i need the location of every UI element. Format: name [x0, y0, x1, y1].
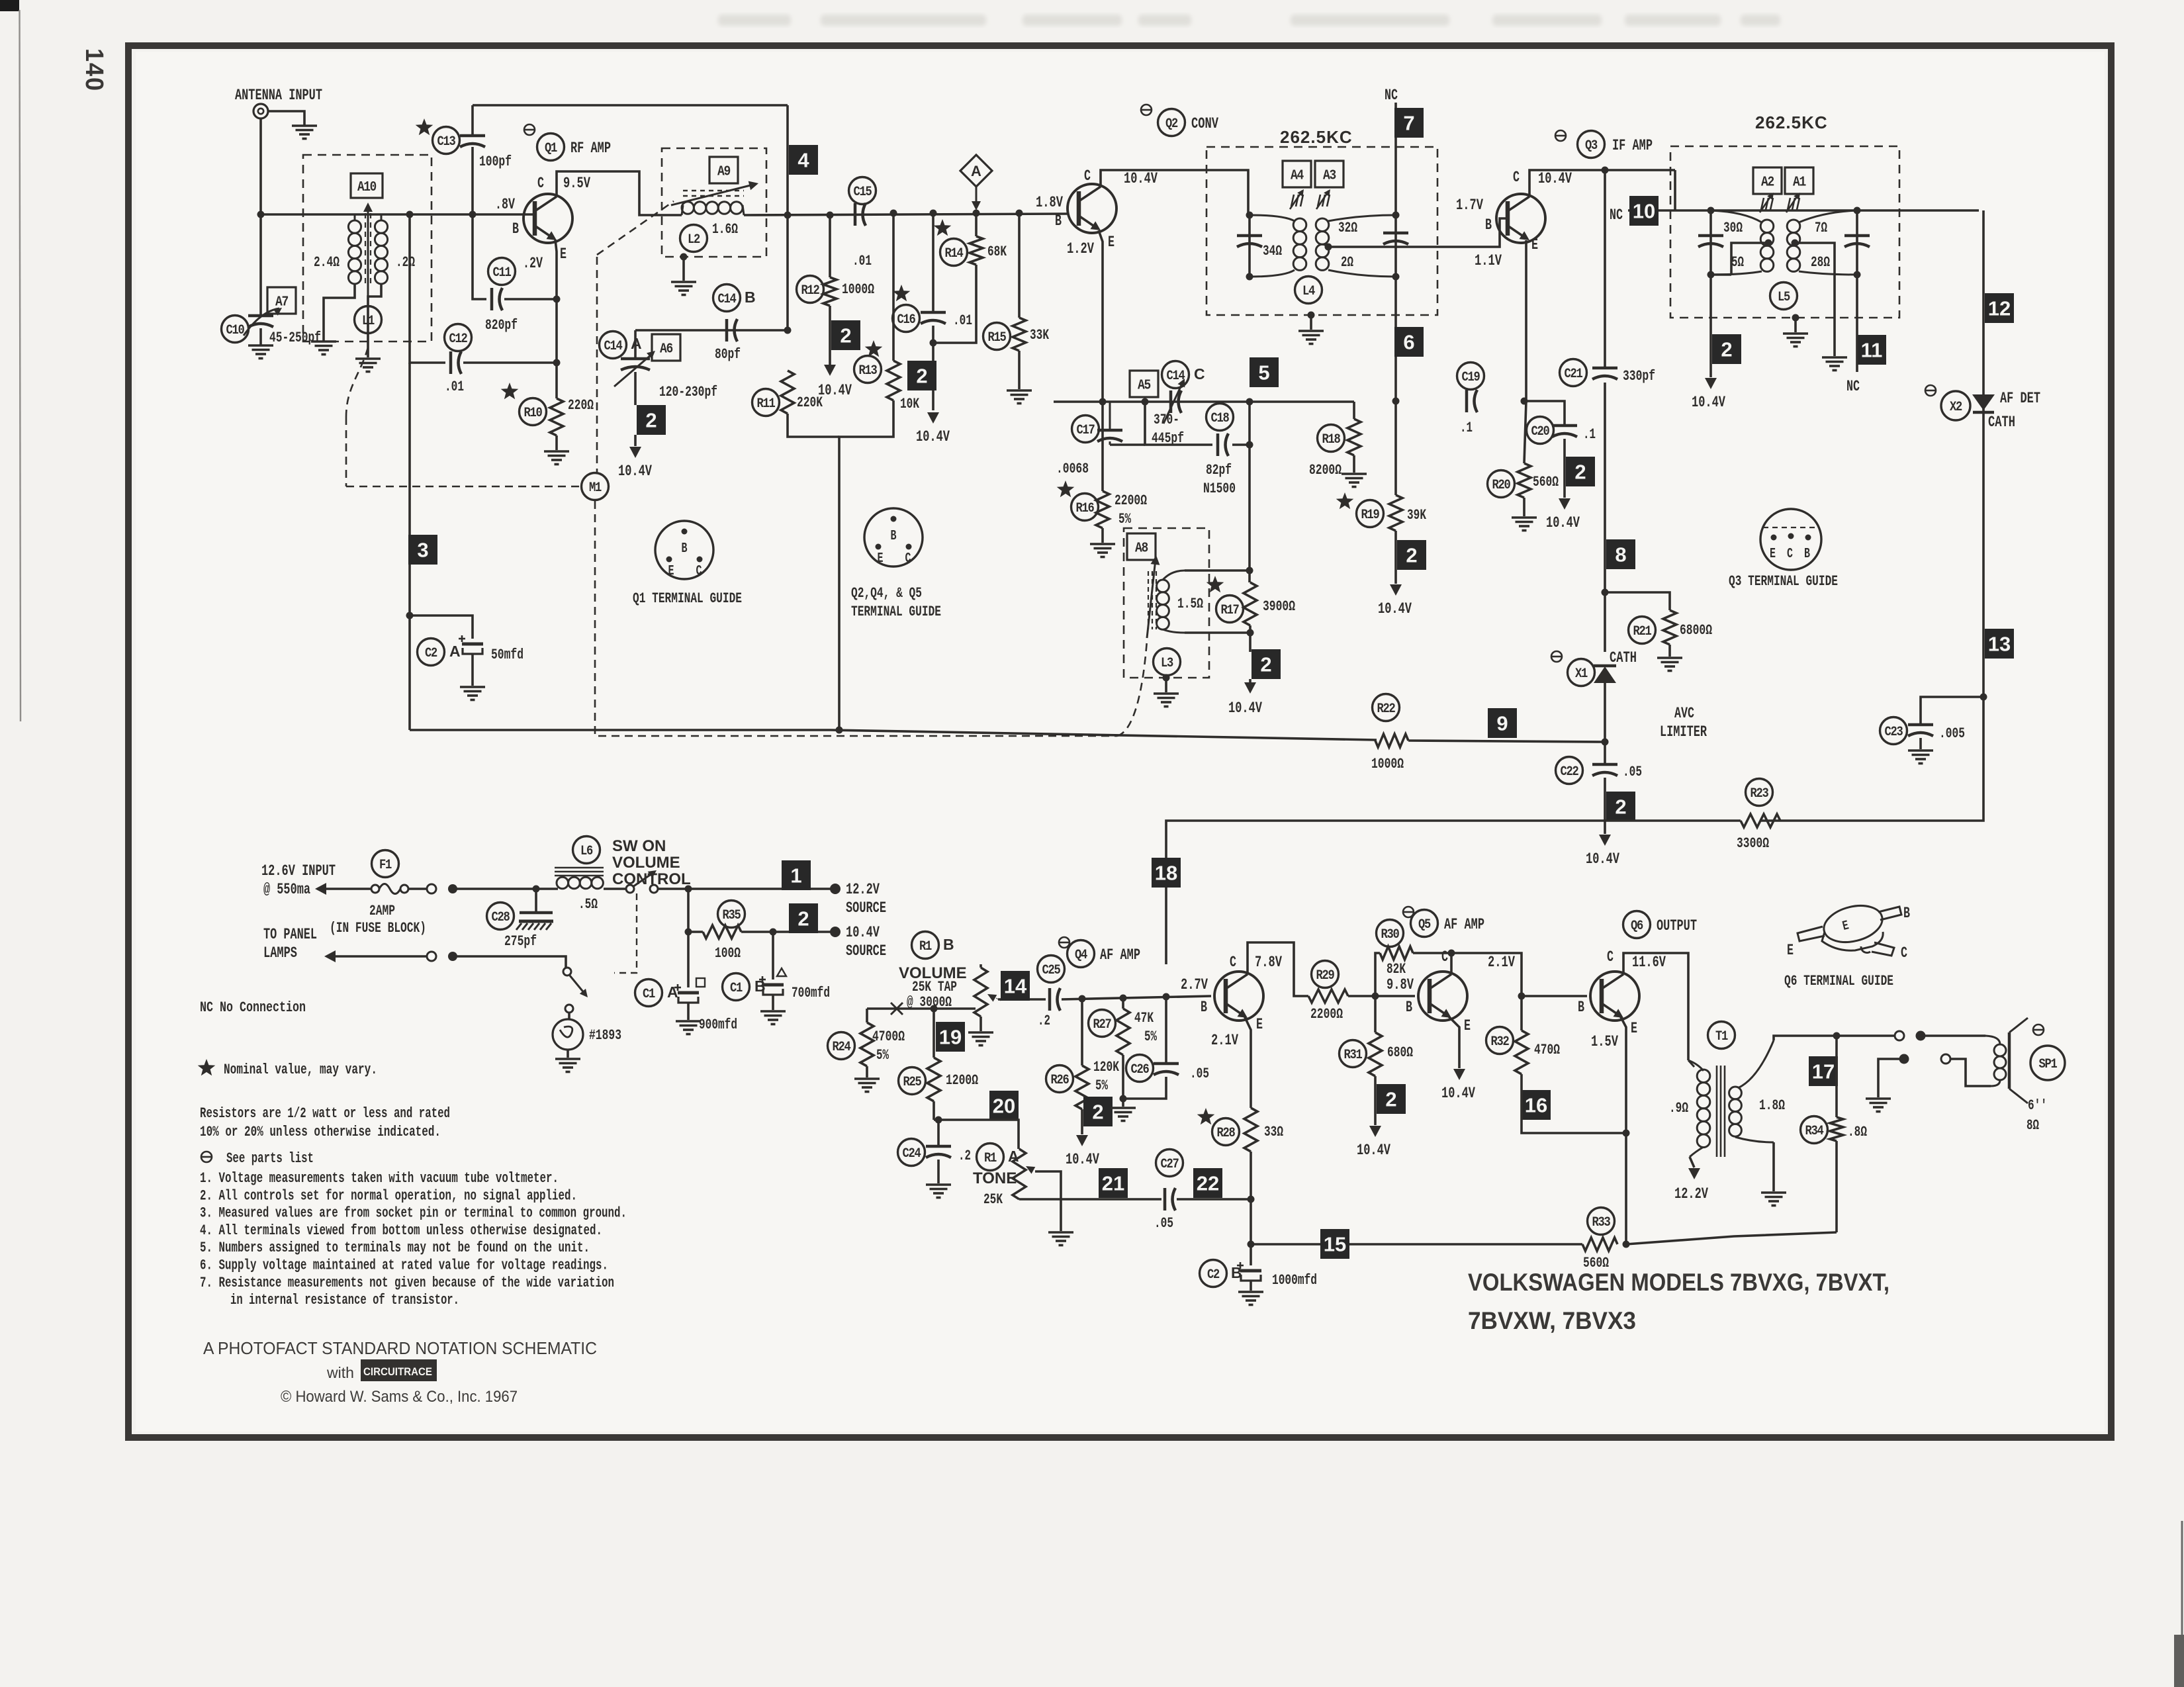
potentiometer R1A tone [1013, 1149, 1026, 1199]
capacitor C14C 370-445pf [1162, 361, 1189, 388]
resistor R22 1000 ohm [1373, 694, 1400, 721]
svg-text:120K: 120K [1093, 1059, 1120, 1075]
svg-text:#1893: #1893 [589, 1027, 621, 1044]
wire R15 to ground [1018, 351, 1021, 389]
svg-text:1.1V: 1.1V [1475, 252, 1502, 269]
capacitor C26 .05 [1165, 997, 1167, 1062]
svg-text:.01: .01 [445, 379, 464, 395]
resistor R10 220 ohm [501, 383, 519, 399]
svg-text:Q5: Q5 [1418, 917, 1430, 933]
wire Q1 emitter [555, 240, 557, 398]
svg-text:R25: R25 [903, 1075, 921, 1090]
svg-text:.5Ω: .5Ω [578, 896, 598, 913]
resistor R23 3300 ohm [1746, 779, 1773, 806]
svg-text:100Ω: 100Ω [715, 945, 741, 962]
capacitor C21 330pf [1560, 359, 1587, 387]
svg-text:2: 2 [1385, 1088, 1396, 1111]
svg-text:1. Voltage measurements taken: 1. Voltage measurements taken with vacuu… [200, 1170, 559, 1187]
capacitor C23 .005 [1921, 697, 1983, 723]
chassis ground C28 [519, 920, 553, 923]
ghost bleed-through text top [718, 15, 1780, 26]
capacitor C17 .0068 [1072, 416, 1099, 443]
wire C24 to ground [937, 1160, 940, 1183]
svg-text:7.8V: 7.8V [1255, 954, 1282, 971]
svg-text:B: B [943, 936, 954, 953]
svg-text:T1: T1 [1715, 1029, 1728, 1044]
svg-text:19: 19 [939, 1026, 962, 1049]
speaker SP1 designator [2030, 1046, 2065, 1080]
svg-text:25K: 25K [983, 1191, 1003, 1208]
svg-text:5%: 5% [876, 1047, 889, 1064]
svg-text:R14: R14 [945, 246, 964, 261]
wire R20 to ground [1523, 498, 1525, 516]
wire L1 secondary to ground [368, 284, 381, 357]
capacitor C15 .01 [849, 177, 876, 205]
dashed unit box L4 [1206, 147, 1437, 315]
ground C24 [926, 1183, 951, 1186]
svg-text:E: E [1531, 236, 1538, 253]
circuitrace 2 under L3 [1251, 649, 1281, 679]
wire C25 to Q4 base [1062, 996, 1211, 999]
wire antenna shield to ground [268, 111, 304, 126]
svg-text:.2V: .2V [523, 255, 543, 272]
svg-text:C13: C13 [437, 134, 455, 150]
svg-text:.01: .01 [953, 312, 972, 329]
resistor R35 100 ohm [718, 901, 745, 928]
speaker plug terminal top [1916, 1031, 1926, 1041]
svg-text:B: B [512, 220, 519, 238]
svg-text:A: A [667, 983, 678, 1001]
wire R32 to emitter rail [1522, 1074, 1626, 1133]
svg-text:E: E [668, 564, 674, 579]
svg-text:L5: L5 [1778, 290, 1790, 305]
wire L5 top rail [1628, 209, 1979, 212]
wire under L5 primary [1711, 273, 1731, 276]
circuitrace 2 under C16 [907, 361, 936, 390]
wire switch to source 1 [658, 888, 831, 890]
voltage 10.4V under C16 [932, 390, 934, 410]
svg-text:470Ω: 470Ω [1534, 1042, 1560, 1058]
svg-text:CATH: CATH [1610, 649, 1637, 666]
transformer L5 secondary 7/28 ohm [1799, 210, 1857, 222]
wire C17 C18 rail [1110, 443, 1145, 446]
svg-text:@ 550ma: @ 550ma [263, 881, 310, 898]
capacitor C2A 50mfd [418, 639, 445, 666]
svg-text:CIRCUITRACE: CIRCUITRACE [363, 1365, 432, 1378]
wire R10 to ground [555, 435, 558, 450]
svg-text:E: E [1631, 1020, 1637, 1037]
svg-text:7: 7 [1403, 112, 1414, 135]
capacitor C11 820pf [473, 214, 486, 299]
wire T1 primary bottom 12.2V [1690, 1157, 1694, 1167]
wire L1 primary to ground [324, 284, 355, 341]
slug L5 secondary [1788, 198, 1790, 210]
svg-text:AF AMP: AF AMP [1444, 916, 1484, 933]
wire osc column [1248, 402, 1251, 582]
tuning arrow L2 [671, 185, 753, 205]
svg-text:25K TAP: 25K TAP [912, 979, 957, 995]
svg-text:R24: R24 [833, 1040, 851, 1055]
svg-text:14: 14 [1004, 975, 1027, 998]
svg-text:See parts list: See parts list [226, 1150, 314, 1167]
circuitrace 15 [1320, 1229, 1349, 1259]
switch SW1b lamp [563, 968, 571, 976]
voltage 10.4V under L3 [1249, 679, 1251, 683]
ground speaker return [1866, 1097, 1891, 1100]
wire C1B to ground [772, 995, 774, 1010]
svg-text:A10: A10 [357, 180, 377, 195]
resistor R25 1200 ohm [933, 1009, 935, 1058]
svg-text:B: B [1578, 999, 1584, 1016]
see parts list mark Q3 [1555, 130, 1566, 141]
capacitor C13 100pf [416, 118, 433, 135]
wire R12 down [829, 306, 831, 368]
wire bus through L2 to conv [744, 214, 1068, 215]
bottom bus wire RF section [410, 730, 1377, 740]
svg-text:C: C [1084, 167, 1091, 185]
capacitor C14B 80pf [713, 285, 741, 312]
wire R24 to ground [866, 1066, 868, 1077]
slug L5 primary [1761, 198, 1764, 210]
voltage 10.4V under C14A [634, 435, 637, 446]
svg-text:CONV: CONV [1191, 115, 1218, 132]
svg-text:.05: .05 [1623, 764, 1642, 780]
svg-text:262.5KC: 262.5KC [1755, 113, 1828, 132]
resistor R15 33K [1018, 213, 1021, 318]
dashed unit box L1 [303, 155, 432, 342]
svg-text:C26: C26 [1131, 1062, 1149, 1077]
node A diamond [960, 155, 992, 187]
lamp 1893 [553, 1019, 583, 1050]
svg-text:RF AMP: RF AMP [570, 140, 611, 157]
circuitrace 2 under R12 [831, 320, 860, 350]
svg-text:8Ω: 8Ω [2026, 1117, 2039, 1134]
svg-text:900mfd: 900mfd [699, 1017, 737, 1033]
circuitrace 12 [1985, 293, 2014, 323]
svg-text:1200Ω: 1200Ω [946, 1072, 978, 1089]
Q3 terminal guide [1760, 509, 1821, 570]
wire sec column down [1394, 277, 1397, 495]
svg-text:.1: .1 [1460, 420, 1473, 436]
note see parts list [201, 1152, 212, 1162]
svg-text:B: B [1201, 999, 1207, 1016]
resistor R31 680 ohm [1374, 996, 1377, 1032]
svg-text:12: 12 [1988, 297, 2011, 320]
svg-text:R34: R34 [1805, 1124, 1824, 1139]
svg-text:E: E [560, 246, 567, 263]
transformer L1 secondary .2 ohm [381, 214, 383, 220]
wire C1A to ground [687, 1003, 690, 1020]
svg-text:5. Numbers assigned to termin: 5. Numbers assigned to terminals may not… [200, 1240, 590, 1256]
circuitrace 2 under R26 [1083, 1097, 1113, 1126]
speaker SP1 voice coil [1994, 1044, 2006, 1056]
svg-text:E: E [1770, 547, 1776, 562]
svg-text:C20: C20 [1531, 424, 1549, 439]
wire 2 under L5 [1709, 275, 1712, 377]
wire audio return bus [1251, 1243, 1582, 1246]
svg-text:B: B [682, 541, 688, 557]
wire C21 down [1604, 383, 1606, 652]
ground L2 [671, 281, 696, 283]
resistor R26 120K [1081, 999, 1083, 1066]
resistor R12 1000 ohm [829, 215, 831, 277]
svg-text:R1: R1 [984, 1151, 997, 1166]
svg-text:R27: R27 [1093, 1017, 1111, 1032]
svg-text:3: 3 [417, 539, 428, 562]
circuitrace 10 [1629, 196, 1659, 226]
svg-text:OUTPUT: OUTPUT [1657, 917, 1697, 935]
inductor L6 .5 ohm [573, 837, 600, 864]
svg-text:Resistors are 1/2 watt or less: Resistors are 1/2 watt or less and rated [200, 1105, 450, 1122]
svg-text:5%: 5% [1095, 1077, 1109, 1094]
svg-text:50mfd: 50mfd [491, 647, 523, 663]
svg-text:10.4V: 10.4V [846, 924, 880, 941]
terminal box A6 [652, 334, 680, 361]
see parts list mark SP1 [2033, 1025, 2044, 1035]
ground C2A [460, 686, 485, 688]
svg-text:A: A [449, 643, 461, 660]
wiper R1B wire [987, 994, 997, 1002]
svg-text:R26: R26 [1051, 1073, 1069, 1088]
svg-text:CATH: CATH [1988, 414, 2015, 431]
svg-text:3300Ω: 3300Ω [1737, 835, 1769, 852]
capacitor C2B 1000mfd [1200, 1260, 1227, 1287]
ground T1 secondary [1761, 1191, 1786, 1194]
svg-text:.05: .05 [1154, 1215, 1173, 1232]
svg-text:1.2V: 1.2V [1067, 240, 1094, 257]
see parts list mark Q2 [1141, 105, 1152, 115]
svg-text:C11: C11 [493, 265, 512, 281]
svg-text:C19: C19 [1462, 370, 1480, 385]
note star nominal value [198, 1059, 216, 1075]
svg-text:.8Ω: .8Ω [1848, 1124, 1867, 1140]
svg-text:Q6: Q6 [1631, 919, 1643, 934]
wire C10 to ground [259, 328, 262, 345]
svg-text:R20: R20 [1492, 478, 1510, 493]
transformer T1 designator [1708, 1022, 1735, 1049]
ground C10 [248, 344, 273, 347]
svg-text:2: 2 [797, 907, 809, 931]
svg-text:9.8V: 9.8V [1387, 976, 1414, 993]
terminal box A8 [1127, 533, 1156, 560]
svg-text:C14: C14 [604, 339, 623, 354]
svg-text:39K: 39K [1407, 507, 1427, 524]
capacitor C25 .2 [1038, 956, 1065, 983]
svg-text:C24: C24 [903, 1146, 921, 1162]
svg-text:AF AMP: AF AMP [1100, 946, 1140, 964]
circuitrace 7 [1394, 108, 1424, 138]
ground antenna shield [292, 124, 317, 127]
resistor R28 33 ohm [1197, 1108, 1215, 1124]
wire R26 arrow [1081, 1109, 1083, 1134]
capacitor L4 secondary resonator [1394, 215, 1397, 277]
see parts list mark Q5 [1403, 907, 1414, 917]
volume control R1B designator [912, 932, 939, 959]
svg-text:1.7V: 1.7V [1456, 197, 1483, 214]
wire R35 to source 2 [688, 931, 703, 933]
svg-text:2.1V: 2.1V [1488, 954, 1515, 971]
Q1 terminal guide [655, 521, 713, 579]
resistor R27 47K [1122, 998, 1124, 1009]
inductor L3 reference [1154, 649, 1181, 676]
svg-text:E: E [1787, 942, 1794, 959]
svg-text:C: C [905, 551, 911, 567]
svg-text:10.4V: 10.4V [1357, 1142, 1390, 1159]
antenna jack J1 [253, 104, 268, 118]
wire Q5 collector [1450, 953, 1453, 974]
svg-text:C2: C2 [1207, 1267, 1219, 1283]
svg-text:C15: C15 [854, 185, 872, 200]
svg-text:2: 2 [1092, 1101, 1103, 1124]
wire R18 to ground [1353, 455, 1355, 473]
svg-text:82K: 82K [1387, 961, 1406, 978]
terminal box A4 [1283, 161, 1311, 187]
inductor L5 reference [1770, 283, 1797, 310]
svg-text:6'': 6'' [2028, 1097, 2047, 1114]
transistor Q4 [1214, 972, 1263, 1021]
wire lamp to switch [453, 956, 566, 968]
svg-text:A8: A8 [1135, 541, 1148, 557]
wire R16 to ground [1101, 528, 1104, 543]
svg-text:VOLUME: VOLUME [612, 854, 680, 872]
terminal box A9 [709, 157, 738, 183]
ground C2B [1238, 1291, 1263, 1293]
svg-text:34Ω: 34Ω [1263, 243, 1282, 259]
svg-text:22: 22 [1197, 1172, 1219, 1195]
wire Q6 collector [1623, 953, 1688, 1060]
resistor R13 10K [892, 213, 895, 361]
svg-text:C: C [1513, 169, 1520, 186]
circuitrace 2 under L5 [1712, 334, 1741, 364]
wire R19 down [1394, 531, 1397, 584]
wire C2B to ground [1250, 1281, 1252, 1291]
svg-text:C12: C12 [449, 332, 467, 347]
voltage 12.2V T1 [1688, 1168, 1700, 1179]
resistor R21 6800 ohm [1605, 592, 1670, 610]
svg-text:Q3: Q3 [1585, 138, 1597, 154]
svg-text:6800Ω: 6800Ω [1680, 622, 1712, 639]
svg-text:R15: R15 [988, 330, 1006, 345]
svg-text:2Ω: 2Ω [1341, 254, 1353, 271]
terminal 10.4V SOURCE [830, 927, 841, 937]
voltage 10.4V under C20 [1559, 498, 1570, 510]
transformer L4 primary 34 ohm [1250, 215, 1295, 221]
svg-text:A1: A1 [1793, 175, 1806, 191]
wire L5 center ground [1792, 314, 1799, 322]
svg-text:C: C [1607, 948, 1614, 966]
slug L4 secondary [1318, 195, 1320, 206]
svg-text:(IN FUSE BLOCK): (IN FUSE BLOCK) [330, 920, 426, 936]
ground R21 [1657, 657, 1682, 659]
svg-text:2: 2 [1574, 461, 1586, 484]
svg-text:Q1: Q1 [545, 141, 557, 156]
svg-text:C: C [696, 564, 702, 579]
transistor Q3 designator [1578, 131, 1605, 158]
svg-text:10.4V: 10.4V [1692, 394, 1725, 411]
wire R11 bottom [788, 414, 839, 437]
svg-text:R23: R23 [1751, 786, 1768, 801]
svg-text:R17: R17 [1221, 603, 1239, 618]
svg-text:10.4V: 10.4V [618, 463, 652, 480]
svg-text:SOURCE: SOURCE [846, 942, 886, 960]
svg-text:LAMPS: LAMPS [263, 944, 297, 962]
svg-text:.005: .005 [1939, 725, 1965, 742]
outer border frame [128, 46, 2111, 1437]
svg-text:LIMITER: LIMITER [1660, 723, 1707, 741]
svg-text:2: 2 [840, 324, 851, 347]
svg-text:X2: X2 [1950, 400, 1962, 415]
diode X1 AVC limiter [1551, 651, 1562, 662]
wire C26 bottom [1123, 1077, 1166, 1099]
mechanical link dash M1 to L3 [595, 501, 1117, 736]
circuitrace 2 sources [789, 903, 818, 933]
svg-text:11: 11 [1861, 339, 1883, 362]
ground R15 [1007, 389, 1032, 392]
svg-text:AF DET: AF DET [2000, 390, 2040, 407]
core L1 [365, 213, 366, 286]
svg-text:10.4V: 10.4V [1586, 850, 1619, 868]
svg-text:C: C [537, 175, 544, 192]
svg-text:in internal resistance of tran: in internal resistance of transistor. [230, 1292, 459, 1308]
wire to tone pot [934, 1120, 1019, 1149]
svg-text:C2: C2 [425, 646, 437, 661]
capacitor C16 .01 [893, 285, 911, 301]
terminal box A5 [1130, 371, 1158, 397]
svg-text:15: 15 [1324, 1233, 1346, 1256]
wire R34 bottom [1835, 1141, 1838, 1232]
svg-text:M1: M1 [589, 480, 602, 496]
terminal box A3 [1315, 161, 1343, 187]
svg-text:C1: C1 [730, 981, 743, 996]
terminal box A10 [351, 173, 383, 198]
speaker SP1 magnet lines [2008, 1032, 2011, 1089]
svg-text:1: 1 [790, 864, 801, 888]
svg-text:3. Measured values are from s: 3. Measured values are from socket pin o… [200, 1205, 627, 1222]
svg-text:12.6V INPUT: 12.6V INPUT [261, 862, 336, 880]
svg-text:2. All controls set for norma: 2. All controls set for normal operation… [200, 1187, 577, 1204]
resistor R19 39K [1336, 492, 1354, 509]
wire Q4 collector [1248, 942, 1308, 996]
svg-text:R11: R11 [757, 396, 776, 412]
svg-text:2: 2 [1615, 796, 1626, 819]
wire T1 secondary bottom to ground [1772, 1142, 1775, 1191]
svg-text:C21: C21 [1565, 367, 1583, 382]
svg-text:NC No Connection: NC No Connection [200, 999, 306, 1016]
wire R25 bottom [933, 1101, 935, 1120]
svg-text:C28: C28 [492, 910, 510, 925]
resistor R18 8200 ohm [1353, 402, 1355, 419]
wire antenna to tuner node [259, 118, 262, 214]
svg-text:R30: R30 [1381, 927, 1399, 942]
wire R31 arrow [1374, 1076, 1377, 1125]
resistor R32 470 ohm [1518, 993, 1525, 1000]
resistor R20 560 ohm [1524, 401, 1526, 463]
svg-text:560Ω: 560Ω [1533, 474, 1559, 490]
svg-text:L3: L3 [1161, 656, 1173, 671]
svg-text:IF AMP: IF AMP [1612, 137, 1653, 154]
svg-text:E: E [1256, 1016, 1263, 1033]
ground L5 center [1783, 332, 1808, 335]
ground C1A [676, 1020, 701, 1023]
circuitrace 17 [1809, 1056, 1838, 1086]
capacitor C10 variable 45-250pf [248, 314, 273, 318]
svg-text:4700Ω: 4700Ω [872, 1028, 905, 1045]
potentiometer R1B volume [979, 964, 982, 968]
svg-text:A: A [971, 163, 981, 179]
capacitor C1A 900mfd [687, 932, 690, 987]
svg-text:2.4Ω: 2.4Ω [314, 254, 340, 271]
svg-text:680Ω: 680Ω [1387, 1044, 1413, 1061]
